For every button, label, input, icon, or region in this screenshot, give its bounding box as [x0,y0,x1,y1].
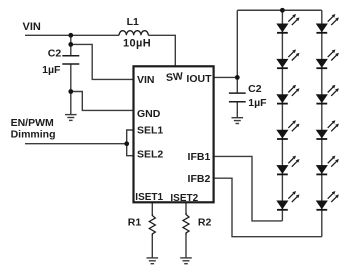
wire dot1 to dot2 [70,35,72,44]
wire ISET1 to R1 [151,202,153,214]
LED D12 [316,191,339,210]
node junction dot IOUT [235,75,240,80]
wire C2 bottom plate to dot3 [70,64,72,92]
node junction dot 2 [68,42,73,47]
resistor R2 [183,213,189,235]
ground (left C2) [65,115,77,121]
LED D3 [277,85,300,104]
svg-text:R2: R2 [198,217,212,229]
node junction dot top rail [280,8,285,13]
LED D11 [316,156,339,175]
svg-text:IFB1: IFB1 [188,151,211,163]
wire EN/PWM to SEL junction [25,143,127,145]
LED D8 [316,49,339,68]
wire dot2 to VIN pin [71,44,133,79]
wire R1 to ground [151,235,153,258]
svg-text:VIN: VIN [137,74,155,86]
capacitor C2 left [62,56,79,64]
LED D6 [277,191,300,210]
LED D7 [316,14,339,33]
svg-text:IOUT: IOUT [186,73,212,85]
wire C2 right to ground [236,102,238,118]
svg-text:C2: C2 [248,83,262,95]
svg-text:1µF: 1µF [248,97,267,109]
wire dot3 to ground [70,92,72,115]
svg-text:ISET1: ISET1 [135,192,163,203]
wire IOUT to node [214,76,238,78]
svg-text:R1: R1 [128,217,142,229]
node junction dot 1 [68,33,73,38]
svg-text:Dimming: Dimming [11,128,56,140]
svg-text:IFB2: IFB2 [188,173,211,185]
svg-text:SEL1: SEL1 [137,125,163,137]
IC U1 [134,66,214,202]
LED D9 [316,85,339,104]
svg-text:1µF: 1µF [42,64,61,76]
wire LED column 2 [321,10,323,236]
svg-text:C2: C2 [48,48,62,60]
svg-text:VIN: VIN [23,21,41,33]
svg-text:GND: GND [137,108,161,120]
wire IOUT node to C2 right [236,77,238,93]
wire top rail [237,9,321,11]
wire IOUT node up to top rail [236,10,238,77]
svg-text:SEL2: SEL2 [137,148,163,160]
wire SEL1-SEL2 vertical with stubs [127,130,133,156]
svg-text:ISET2: ISET2 [170,193,198,204]
ground (R1) [147,258,159,264]
capacitor C2 right [229,93,246,102]
ground (R2) [180,258,192,264]
wire IFB2 loop [214,178,322,237]
LED D5 [277,156,300,175]
LED D10 [316,120,339,139]
svg-text:EN/PWM: EN/PWM [11,117,54,129]
LED D2 [277,49,300,68]
svg-text:10µH: 10µH [123,37,151,49]
wire dot3 to GND pin [71,92,133,111]
wire LED column 1 [281,10,283,221]
wire coil to SW pin [148,35,175,66]
wire VIN horizontal [25,34,119,36]
wire ISET2 to R2 [185,202,187,213]
node junction dot SEL [124,141,129,146]
ground (right C2) [232,118,244,124]
resistor R1 [149,214,155,236]
LED D1 [277,14,300,33]
wire IFB1 loop [214,156,283,221]
node junction dot 3 [68,89,73,94]
wire dot2 to C2 top plate [70,44,72,55]
inductor L1 [119,31,148,36]
svg-text:L1: L1 [127,16,139,28]
LED D4 [277,120,300,139]
wire R2 to ground [185,234,187,258]
svg-text:SW: SW [165,70,183,84]
